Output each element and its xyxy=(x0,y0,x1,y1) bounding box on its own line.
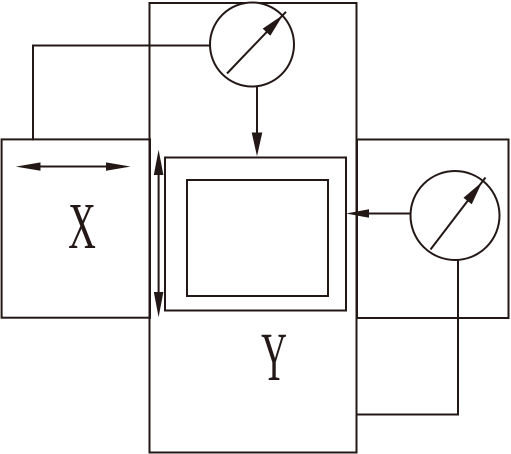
svg-text:Y: Y xyxy=(261,319,287,396)
svg-text:X: X xyxy=(68,189,96,262)
